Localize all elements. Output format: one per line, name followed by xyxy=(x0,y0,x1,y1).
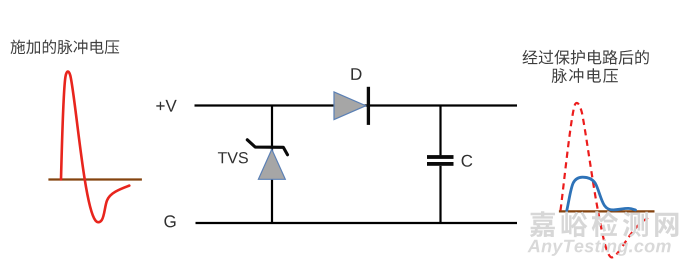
output pulse zero baseline xyxy=(559,210,655,212)
+V rail wire xyxy=(195,104,518,106)
G (ground) rail wire xyxy=(196,222,518,224)
caption: applied pulse voltage 施加的脉冲电压 xyxy=(11,40,120,55)
wire: TVS branch (vertical) xyxy=(271,106,273,224)
label C xyxy=(462,155,473,167)
label D xyxy=(351,68,361,80)
TVS cathode bar (zener bend) xyxy=(247,140,287,155)
wire: capacitor branch upper xyxy=(439,106,441,156)
watermark AnyTesting.com xyxy=(527,239,670,256)
capacitor C top plate xyxy=(427,155,454,159)
clamped output pulse (blue) xyxy=(567,177,636,210)
label TVS xyxy=(218,152,248,163)
applied pulse zero baseline xyxy=(48,178,141,180)
wire: capacitor branch lower xyxy=(439,166,441,223)
capacitor C bottom plate xyxy=(427,162,454,166)
applied surge pulse waveform (red) xyxy=(61,72,129,223)
diode D body (triangle) xyxy=(334,92,366,120)
TVS diode body (triangle) xyxy=(258,149,285,179)
label G xyxy=(164,215,175,227)
watermark 嘉峪检测网 xyxy=(530,211,679,237)
caption line 2: 脉冲电压 xyxy=(552,68,618,83)
original pulse ghost (red dashed) xyxy=(561,103,650,257)
label +V xyxy=(156,100,176,112)
diode D cathode bar xyxy=(367,87,370,125)
caption line 1: 经过保护电路后的 xyxy=(523,50,649,65)
